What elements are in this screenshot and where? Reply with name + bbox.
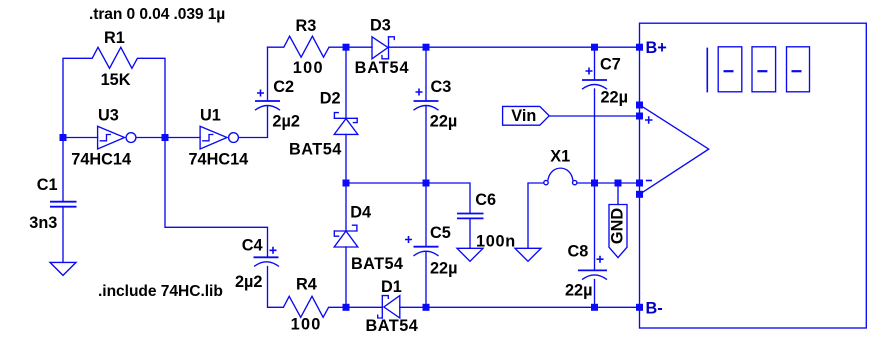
svg-text:C1: C1 bbox=[37, 176, 58, 194]
node C8 bottom junction bbox=[591, 304, 598, 311]
battery cell 1 bbox=[718, 47, 742, 92]
svg-text:B+: B+ bbox=[646, 39, 667, 57]
C2 plus bbox=[257, 90, 264, 97]
battery cell 3 bbox=[787, 47, 810, 92]
C4 plus bbox=[270, 247, 277, 254]
svg-text:2µ2: 2µ2 bbox=[272, 113, 300, 131]
svg-text:D1: D1 bbox=[381, 278, 402, 296]
wire X1 left to ground bbox=[528, 183, 544, 248]
wire D4 bottom bbox=[345, 247, 347, 307]
svg-text:C5: C5 bbox=[430, 224, 451, 242]
wire D2 top bbox=[345, 47, 347, 118]
svg-text:100: 100 bbox=[293, 59, 324, 77]
node op-amp plus input junction bbox=[636, 113, 643, 120]
node U1 input junction bbox=[162, 134, 169, 141]
capacitor C4 plates bbox=[254, 257, 280, 266]
wire R1 feedback loop with resistor R1 zigzag bbox=[63, 47, 165, 137]
svg-text:BAT54: BAT54 bbox=[355, 59, 410, 77]
U1 output bubble bbox=[229, 133, 239, 143]
U3 schmitt hysteresis glyph bbox=[100, 135, 110, 141]
wire C1 top bbox=[62, 138, 64, 202]
wire top row D3 cathode to B+ bbox=[389, 46, 640, 48]
svg-text:BAT54: BAT54 bbox=[289, 141, 342, 159]
svg-text:Vin: Vin bbox=[511, 107, 536, 125]
node B+ junction bbox=[636, 44, 643, 51]
svg-text:15K: 15K bbox=[101, 71, 131, 89]
svg-text:C7: C7 bbox=[600, 56, 621, 74]
svg-text:BAT54: BAT54 bbox=[366, 317, 419, 335]
op-amp triangle bbox=[640, 105, 709, 195]
node D3/C3 junction bbox=[423, 44, 430, 51]
C8 plus bbox=[597, 256, 604, 263]
op-amp plus input mark bbox=[645, 116, 653, 124]
node op-amp top corner junction bbox=[636, 102, 643, 109]
svg-text:R1: R1 bbox=[104, 29, 125, 47]
svg-text:C2: C2 bbox=[273, 78, 294, 96]
capacitor C8 plates bbox=[578, 270, 607, 279]
svg-text:.include 74HC.lib: .include 74HC.lib bbox=[98, 283, 223, 300]
svg-text:D2: D2 bbox=[320, 89, 341, 107]
node B- junction bbox=[636, 304, 643, 311]
svg-text:BAT54: BAT54 bbox=[351, 255, 403, 273]
wire bottom row D1 base to B- bbox=[400, 306, 640, 308]
svg-text:74HC14: 74HC14 bbox=[189, 151, 249, 169]
svg-text:22µ: 22µ bbox=[601, 89, 629, 107]
node op-amp minus input junction bbox=[636, 180, 643, 187]
node mid row C junction bbox=[423, 180, 430, 187]
svg-text:2µ2: 2µ2 bbox=[235, 273, 263, 291]
flag GND bbox=[609, 205, 627, 258]
battery bar bbox=[706, 48, 708, 93]
svg-text:R4: R4 bbox=[296, 276, 317, 294]
svg-text:3n3: 3n3 bbox=[29, 214, 57, 232]
svg-text:100n: 100n bbox=[476, 232, 516, 250]
inverter U3 triangle bbox=[98, 126, 125, 149]
wire C4 bottom to bottom row bbox=[268, 267, 383, 318]
svg-text:100: 100 bbox=[291, 315, 322, 333]
svg-text:74HC14: 74HC14 bbox=[71, 151, 131, 169]
wire U3 output bbox=[136, 137, 165, 139]
wire C6 bottom to ground bbox=[469, 218, 471, 248]
C5 plus bbox=[405, 236, 412, 243]
wire X1 right to box bbox=[577, 182, 640, 184]
node bottom row D junction bbox=[343, 304, 350, 311]
svg-text:22µ: 22µ bbox=[565, 282, 593, 300]
svg-text:C6: C6 bbox=[475, 191, 496, 209]
inverter U1 triangle bbox=[200, 126, 227, 149]
svg-text:22µ: 22µ bbox=[430, 259, 458, 277]
wire D2 bottom bbox=[345, 134, 347, 183]
wire GND flag stub bbox=[617, 183, 619, 205]
node op-amp bottom corner junction bbox=[636, 191, 643, 198]
svg-text:B-: B- bbox=[646, 300, 663, 318]
svg-text:D3: D3 bbox=[370, 17, 391, 35]
wire D4 top bbox=[345, 183, 347, 231]
node C7 top junction bbox=[591, 44, 598, 51]
wire mid row to C6 bbox=[346, 183, 470, 214]
wire C8 bottom bbox=[594, 280, 596, 308]
diode D3 bbox=[372, 37, 394, 59]
svg-text:C4: C4 bbox=[242, 237, 263, 255]
diode D1 bbox=[378, 296, 400, 318]
capacitor C1 plates bbox=[50, 202, 77, 207]
ground under C1 bbox=[50, 262, 76, 275]
wire mid row to C8 bbox=[594, 183, 596, 270]
ground under X1 bbox=[515, 248, 541, 261]
wire Vin to op-amp + input bbox=[549, 115, 639, 117]
junction squares bbox=[60, 44, 644, 311]
wire U1 input bbox=[165, 137, 200, 139]
svg-text:X1: X1 bbox=[550, 147, 570, 165]
wire C5 bottom bbox=[425, 252, 427, 307]
diode D2 bbox=[334, 113, 358, 135]
capacitor C6 plates bbox=[457, 214, 484, 219]
wire C2 top to R3 row bbox=[267, 47, 269, 101]
svg-text:D4: D4 bbox=[350, 203, 371, 221]
node GND flag junction bbox=[615, 180, 622, 187]
plus marks for polarized caps bbox=[257, 68, 653, 263]
U3 output bubble bbox=[126, 133, 136, 143]
svg-text:22µ: 22µ bbox=[430, 113, 458, 131]
wire top row with resistor R3 zigzag bbox=[268, 36, 373, 57]
battery cell 2 bbox=[752, 47, 776, 92]
capacitor C5 plates bbox=[414, 247, 439, 256]
capacitor C3 plates bbox=[414, 101, 439, 110]
box amplifier outline bbox=[640, 23, 867, 328]
wire U1 output to C2 bbox=[239, 106, 268, 138]
C7 plus bbox=[586, 68, 593, 75]
node mid row D junction bbox=[343, 180, 350, 187]
wire U3 input bbox=[63, 137, 98, 139]
node bottom row C junction bbox=[423, 304, 430, 311]
svg-text:U3: U3 bbox=[98, 106, 119, 124]
wire C3 bottom bbox=[425, 106, 427, 183]
U1 schmitt hysteresis glyph bbox=[203, 135, 213, 141]
node C7/C8 mid junction bbox=[591, 180, 598, 187]
svg-text:R3: R3 bbox=[296, 17, 317, 35]
op-amp minus input mark bbox=[646, 180, 652, 182]
svg-text:.tran 0 0.04 .039 1µ: .tran 0 0.04 .039 1µ bbox=[89, 6, 225, 23]
node R3/D3/D2 junction bbox=[343, 44, 350, 51]
wire C3 top bbox=[425, 47, 427, 101]
jumper X1 bbox=[544, 168, 577, 185]
node U3 input junction bbox=[60, 134, 67, 141]
svg-text:C8: C8 bbox=[568, 243, 589, 261]
capacitor C7 plates bbox=[582, 80, 607, 89]
wire U1 junction down to C4 bbox=[165, 138, 268, 258]
flag Vin bbox=[503, 106, 550, 125]
ground under C6 bbox=[457, 248, 483, 261]
svg-text:U1: U1 bbox=[200, 106, 221, 124]
svg-text:GND: GND bbox=[609, 208, 627, 244]
wire C1 bottom to ground bbox=[62, 207, 64, 263]
svg-text:C3: C3 bbox=[431, 78, 452, 96]
wire C5 top bbox=[425, 183, 427, 247]
C3 plus bbox=[416, 89, 423, 96]
capacitor C2 plates bbox=[255, 101, 280, 110]
wire C7 top bbox=[594, 47, 596, 80]
wire C7 bottom through Vin row to mid row bbox=[594, 89, 596, 183]
diode D4 bbox=[334, 225, 358, 247]
